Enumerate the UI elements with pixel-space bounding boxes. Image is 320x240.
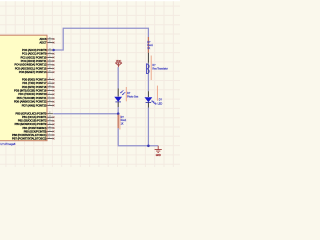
sheet background bbox=[0, 0, 180, 167]
svg-text:31: 31 bbox=[49, 82, 51, 84]
svg-text:PB1 (OC1A) PCINT1: PB1 (OC1A) PCINT1 bbox=[22, 115, 47, 119]
pin PD0 (RXD) PCINT16 bbox=[47, 79, 53, 81]
wire left resistor to bottom bbox=[118, 128, 158, 146]
wire photodiode to node bbox=[117, 102, 119, 107]
LED D? bbox=[145, 97, 153, 102]
svg-text:29: 29 bbox=[49, 71, 51, 73]
pin PB4 (PCINT4/MISO) bbox=[47, 127, 53, 129]
svg-text:24: 24 bbox=[49, 52, 51, 54]
svg-text:PD4 (T0/XCK) PCINT20: PD4 (T0/XCK) PCINT20 bbox=[18, 92, 47, 96]
svg-text:14: 14 bbox=[49, 119, 51, 121]
pin PC1 (ADC1) PCINT9 bbox=[47, 53, 53, 55]
junction at PC0 pin bbox=[52, 49, 55, 52]
pin ADC6 bbox=[47, 38, 53, 40]
svg-text:PD6 (AIN0/OC0A) PCINT22: PD6 (AIN0/OC0A) PCINT22 bbox=[14, 100, 47, 104]
svg-text:PC4 (ADC4/SDA) PCINT12: PC4 (ADC4/SDA) PCINT12 bbox=[15, 63, 47, 67]
svg-text:26: 26 bbox=[49, 60, 51, 62]
svg-text:17: 17 bbox=[49, 130, 51, 132]
svg-text:PB2 (SS/OC1B) PCINT2: PB2 (SS/OC1B) PCINT2 bbox=[18, 119, 47, 123]
svg-text:30: 30 bbox=[49, 78, 51, 80]
svg-text:8: 8 bbox=[49, 137, 50, 139]
svg-text:10: 10 bbox=[49, 100, 51, 102]
svg-text:PC1 (ADC1) PCINT9: PC1 (ADC1) PCINT9 bbox=[22, 52, 47, 56]
pin PB5 (SCK/PCINT5) bbox=[47, 130, 53, 132]
IC U? ATmega8 body bbox=[0, 35, 47, 141]
svg-text:2: 2 bbox=[49, 93, 50, 95]
svg-text:PB4 (PCINT4/MISO): PB4 (PCINT4/MISO) bbox=[22, 126, 46, 130]
pin PC2 (ADC2) PCINT10 bbox=[47, 56, 53, 58]
svg-text:7: 7 bbox=[49, 133, 50, 135]
pin PD2 (INT0) PCINT18 bbox=[47, 86, 53, 88]
pin PD7 (AIN1) PCINT23 bbox=[47, 104, 53, 106]
svg-text:PB7 (PCINT7/XTAL2/TOSC2): PB7 (PCINT7/XTAL2/TOSC2) bbox=[12, 136, 46, 140]
svg-text:28: 28 bbox=[49, 67, 51, 69]
svg-text:9: 9 bbox=[49, 96, 50, 98]
wire PC0 pin to top bus bbox=[53, 28, 148, 50]
svg-text:PD0 (RXD) PCINT16: PD0 (RXD) PCINT16 bbox=[22, 77, 47, 81]
resistor R? Res1 1K (top right) body bbox=[147, 37, 149, 53]
svg-text:PD2 (INT0) PCINT18: PD2 (INT0) PCINT18 bbox=[22, 85, 47, 89]
pin PB6 (PCINT6/XTAL1/TOSC1) bbox=[47, 134, 53, 136]
pin PB7 (PCINT7/XTAL2/TOSC2) bbox=[47, 138, 53, 140]
svg-text:ADC7: ADC7 bbox=[39, 40, 46, 44]
svg-text:16: 16 bbox=[49, 126, 51, 128]
svg-text:PB6 (PCINT6/XTAL1/TOSC1): PB6 (PCINT6/XTAL1/TOSC1) bbox=[12, 133, 46, 137]
pin PC0 (ADC0) PCINT8 bbox=[47, 49, 53, 51]
pin PD5 (T1/OC0B) PCINT21 bbox=[47, 97, 53, 99]
pin PC5 (ADC5/SCL) PCINT13 bbox=[47, 68, 53, 70]
pin PD4 (T0/XCK) PCINT20 bbox=[47, 93, 53, 95]
svg-text:11: 11 bbox=[49, 104, 51, 106]
svg-text:PC3 (ADC3) PCINT11: PC3 (ADC3) PCINT11 bbox=[21, 59, 47, 63]
svg-text:27: 27 bbox=[49, 63, 51, 65]
svg-text:PB5 (SCK/PCINT5): PB5 (SCK/PCINT5) bbox=[24, 129, 47, 133]
pin PB2 (SS/OC1B) PCINT2 bbox=[47, 120, 53, 122]
resistor R? Res1 1K (left) bbox=[117, 115, 119, 129]
svg-text:25: 25 bbox=[49, 56, 51, 58]
pin PC3 (ADC3) PCINT11 bbox=[47, 60, 53, 62]
wire PB0 pin to photodiode node bbox=[53, 113, 118, 115]
svg-text:PB3 (MOSI/OC2A) PCINT3: PB3 (MOSI/OC2A) PCINT3 bbox=[15, 122, 47, 126]
svg-text:12: 12 bbox=[49, 112, 51, 114]
pin PB3 (MOSI/OC2A) PCINT3 bbox=[47, 123, 53, 125]
svg-text:1: 1 bbox=[49, 89, 50, 91]
svg-text:15: 15 bbox=[49, 123, 51, 125]
wire transistor to LED bbox=[147, 74, 149, 91]
pin PD6 (AIN0/OC0A) PCINT22 bbox=[47, 101, 53, 103]
svg-text:PC6 (RESET) PCINT14: PC6 (RESET) PCINT14 bbox=[19, 70, 47, 74]
transistor Q? Res Transistor bbox=[147, 63, 149, 74]
svg-text:LED: LED bbox=[158, 102, 163, 105]
svg-text:1K: 1K bbox=[147, 47, 150, 50]
pin PD1 (TXD) PCINT17 bbox=[47, 82, 53, 84]
pin PB0 (ICP1/CLKO) PCINT0 bbox=[47, 113, 53, 115]
svg-text:PD1 (TXD) PCINT17: PD1 (TXD) PCINT17 bbox=[22, 81, 47, 85]
svg-text:PC2 (ADC2) PCINT10: PC2 (ADC2) PCINT10 bbox=[21, 55, 47, 59]
svg-text:PD3 (INT1/OC2B) PCINT19: PD3 (INT1/OC2B) PCINT19 bbox=[14, 88, 47, 92]
wire VCC to photodiode bbox=[117, 67, 119, 88]
wire LED to bottom node bbox=[147, 103, 149, 108]
svg-text:U? ATmega8: U? ATmega8 bbox=[0, 142, 16, 146]
svg-text:PC0 (ADC0) PCINT8: PC0 (ADC0) PCINT8 bbox=[22, 48, 47, 52]
svg-text:13: 13 bbox=[49, 116, 51, 118]
pin PC4 (ADC4/SDA) PCINT12 bbox=[47, 64, 53, 66]
svg-text:PB0 (ICP1/CLKO) PCINT0: PB0 (ICP1/CLKO) PCINT0 bbox=[16, 112, 47, 116]
svg-text:Res Transistor: Res Transistor bbox=[152, 67, 168, 70]
svg-text:32: 32 bbox=[49, 85, 51, 87]
ground GND bbox=[155, 146, 162, 153]
junction node photodiode/resistor bbox=[117, 112, 120, 115]
pin between resistor and transistor bbox=[147, 53, 149, 63]
svg-text:PD5 (T1/OC0B) PCINT21: PD5 (T1/OC0B) PCINT21 bbox=[17, 96, 47, 100]
pin PD3 (INT1/OC2B) PCINT19 bbox=[47, 90, 53, 92]
photodiode D? Photo Sen bbox=[114, 97, 122, 102]
svg-text:GND: GND bbox=[156, 155, 161, 157]
svg-text:ADC6: ADC6 bbox=[39, 37, 46, 41]
junction bottom node bbox=[147, 145, 150, 148]
pin PC6 (RESET) PCINT14 bbox=[47, 71, 53, 73]
svg-text:PC5 (ADC5/SCL) PCINT13: PC5 (ADC5/SCL) PCINT13 bbox=[15, 66, 47, 70]
svg-text:23: 23 bbox=[49, 48, 51, 50]
svg-text:22: 22 bbox=[49, 41, 51, 43]
svg-text:Photo Sen: Photo Sen bbox=[127, 96, 139, 99]
pin ADC7 bbox=[47, 42, 53, 44]
pin PB1 (OC1A) PCINT1 bbox=[47, 116, 53, 118]
svg-text:PD7 (AIN1) PCINT23: PD7 (AIN1) PCINT23 bbox=[22, 103, 47, 107]
svg-text:19: 19 bbox=[49, 37, 51, 39]
svg-text:1K: 1K bbox=[121, 122, 124, 125]
